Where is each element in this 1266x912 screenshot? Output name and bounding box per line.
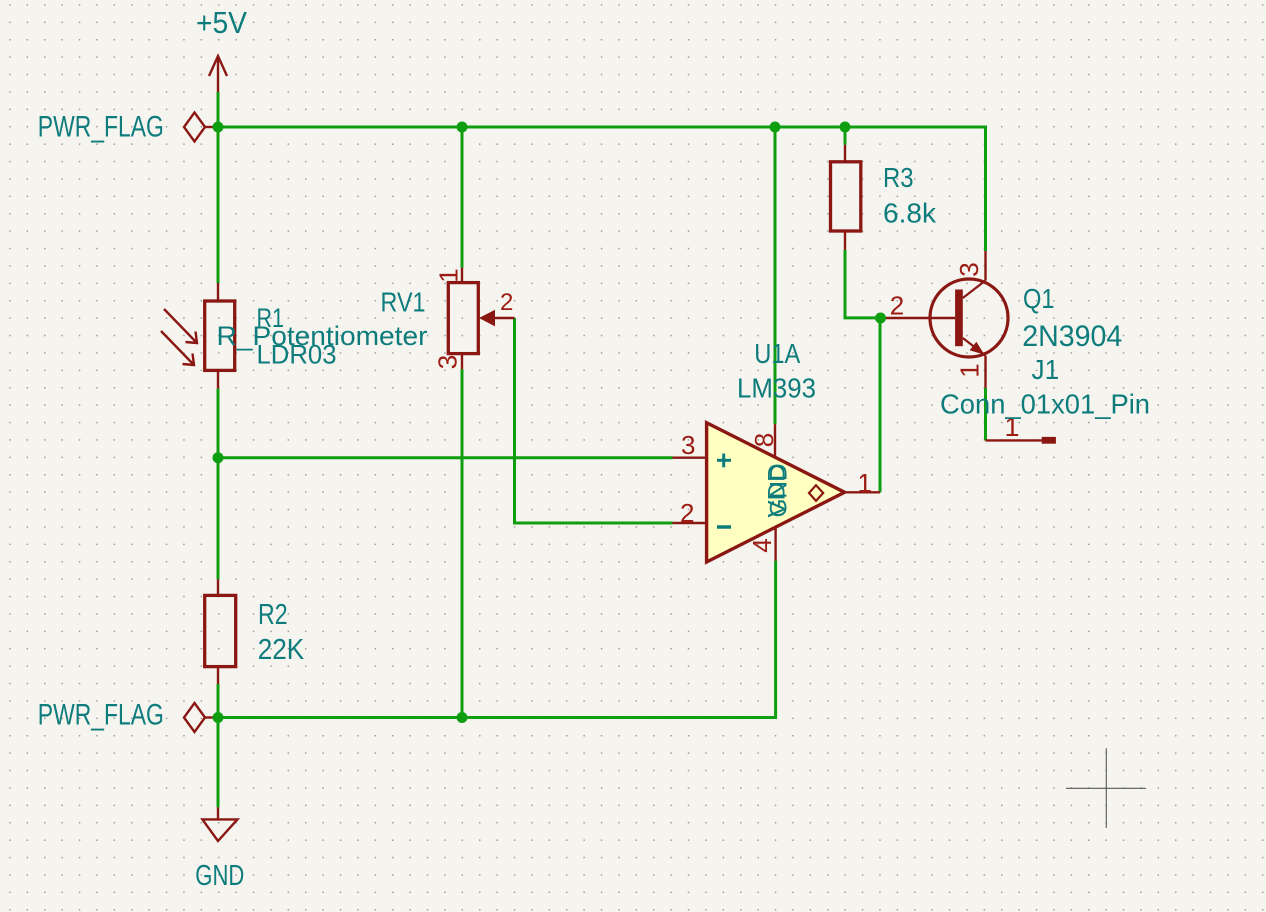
svg-text:3: 3 <box>681 430 695 460</box>
label PWR_FLAG top <box>38 111 164 144</box>
connector J1 body <box>1042 437 1056 444</box>
label R2 <box>258 599 288 631</box>
resistor R3 body <box>831 162 861 231</box>
label GND <box>195 860 244 892</box>
svg-text:+5V: +5V <box>196 5 247 40</box>
label U1A <box>754 338 800 369</box>
pin number 1 op-amp <box>858 468 872 498</box>
label PWR_FLAG bottom <box>38 699 164 732</box>
label 22K <box>258 634 305 666</box>
op-amp pin 1 stub <box>845 491 880 493</box>
svg-text:3: 3 <box>954 262 984 276</box>
transistor Q1 emitter line with arrow <box>963 338 986 388</box>
wire R2 bottom to bottom rail <box>217 684 220 718</box>
pin number 2 RV1 <box>500 289 513 316</box>
label 6.8k <box>883 198 937 229</box>
pin number 2 Q1 base <box>890 291 904 321</box>
wire top rail from +5V to Q1 collector <box>218 127 986 251</box>
op-amp pin 2 stub <box>673 522 707 524</box>
label LDR03 <box>257 340 337 370</box>
op-amp pin 8 stub <box>774 424 776 457</box>
wire +5V symbol to top rail <box>217 92 220 127</box>
junction node top rail at +5V <box>213 122 224 133</box>
wire Q1 emitter to J1 <box>984 388 987 441</box>
LDR light arrows <box>161 309 197 365</box>
label R3 <box>883 162 914 193</box>
pin number 8 op-amp rotated <box>749 433 779 447</box>
label RV1 <box>381 287 426 318</box>
resistor R2 pin stubs <box>217 579 219 684</box>
svg-text:6.8k: 6.8k <box>883 198 937 229</box>
power symbol +5V arrow <box>209 56 227 92</box>
svg-text:2: 2 <box>500 289 513 316</box>
resistor R1 (LDR) body <box>205 301 235 370</box>
op-amp pin 4 stub <box>774 528 776 561</box>
label J1 <box>1032 354 1060 385</box>
svg-text:GND: GND <box>195 860 244 892</box>
svg-text:U1A: U1A <box>754 338 800 369</box>
pin number 2 op-amp <box>680 498 694 528</box>
wire top rail to op-amp pin 8 <box>774 127 777 424</box>
junction node top rail at RV1 <box>457 122 468 133</box>
op-amp inverting minus sign <box>717 525 731 529</box>
svg-text:2: 2 <box>680 498 694 528</box>
transistor Q1 circle <box>930 279 1008 357</box>
pin number 3 Q1 collector rotated <box>954 262 984 276</box>
svg-text:R2: R2 <box>258 599 288 631</box>
wire left column middle (R1 to R2) <box>217 389 220 580</box>
op-amp pin 3 stub <box>673 457 707 459</box>
op-amp open-collector diamond <box>809 485 823 501</box>
svg-text:Conn_01x01_Pin: Conn_01x01_Pin <box>940 389 1150 420</box>
pin number 3 op-amp <box>681 430 695 460</box>
svg-text:8: 8 <box>749 433 779 447</box>
op-amp pin name GND rotated <box>766 464 793 518</box>
wire bottom rail to GND symbol <box>217 718 220 808</box>
junction node bottom rail left <box>213 712 224 723</box>
svg-text:J1: J1 <box>1032 354 1060 385</box>
pin number 1 RV1 <box>433 268 463 282</box>
svg-text:PWR_FLAG: PWR_FLAG <box>38 111 164 144</box>
ground symbol <box>202 807 237 841</box>
svg-text:1: 1 <box>433 268 463 282</box>
power flag PWR_FLAG top diamond <box>184 113 218 142</box>
wire node row to op-amp pin 3 <box>218 456 673 459</box>
resistor R2 body <box>205 595 236 666</box>
wire RV1 pin 3 to bottom rail <box>461 369 464 717</box>
svg-text:2N3904: 2N3904 <box>1022 320 1122 353</box>
pin number 1 Q1 emitter rotated <box>955 363 985 377</box>
cursor crosshair <box>1066 748 1146 828</box>
label R1 <box>257 303 285 333</box>
svg-text:4: 4 <box>747 538 777 552</box>
svg-text:PWR_FLAG: PWR_FLAG <box>38 699 164 732</box>
op-amp U1A body <box>707 423 845 562</box>
resistor R3 pin stubs <box>844 145 846 250</box>
potentiometer RV1 wiper arrow <box>479 310 515 327</box>
svg-text:RV1: RV1 <box>381 287 426 318</box>
wire left column upper (top rail to R1) <box>217 127 220 283</box>
wire RV1 wiper to op-amp pin 2 <box>515 318 673 523</box>
junction node Q1 base <box>875 313 886 324</box>
svg-text:1: 1 <box>858 468 872 498</box>
junction node R1-R2 divider <box>213 452 224 463</box>
label 2N3904 <box>1022 320 1122 353</box>
svg-text:22K: 22K <box>258 634 305 666</box>
junction node bottom rail at RV1 <box>457 712 468 723</box>
label +5V <box>196 5 247 40</box>
wire top rail to R3 <box>844 127 847 145</box>
svg-text:R3: R3 <box>883 162 914 193</box>
op-amp non-inverting plus sign <box>717 454 731 468</box>
pin number 3 RV1 <box>433 355 463 369</box>
transistor Q1 collector line <box>963 251 986 298</box>
pin number 1 J1 <box>1005 412 1020 442</box>
potentiometer RV1 body <box>448 283 478 354</box>
wire op-amp output riser to base node <box>879 318 882 492</box>
wire bottom rail to op-amp pin 4 <box>218 561 776 718</box>
potentiometer RV1 pin stubs <box>461 268 463 370</box>
junction node top rail at R3 <box>840 122 851 133</box>
op-amp pin name VDD rotated <box>764 464 791 518</box>
svg-text:2: 2 <box>890 291 904 321</box>
connector J1 pin <box>986 439 1042 441</box>
svg-text:1: 1 <box>955 363 985 377</box>
power flag PWR_FLAG bottom diamond <box>184 703 218 732</box>
resistor R1 pin stubs <box>217 283 219 389</box>
svg-text:R_Potentiometer: R_Potentiometer <box>217 321 428 351</box>
wire R3 bottom to Q1 base node <box>845 250 881 318</box>
svg-text:LM393: LM393 <box>737 373 816 404</box>
transistor Q1 base bar <box>955 290 963 347</box>
label LM393 <box>737 373 816 404</box>
label Q1 <box>1023 283 1055 314</box>
junction node top rail at op-amp pin 8 <box>770 122 781 133</box>
label R_Potentiometer <box>217 321 428 351</box>
pin number 4 op-amp rotated <box>747 538 777 552</box>
wire top rail to RV1 pin 1 <box>461 127 464 268</box>
svg-text:GND: GND <box>766 464 793 518</box>
svg-text:3: 3 <box>433 355 463 369</box>
label Conn_01x01_Pin <box>940 389 1150 420</box>
svg-text:Q1: Q1 <box>1023 283 1055 314</box>
transistor Q1 base pin <box>881 317 956 319</box>
